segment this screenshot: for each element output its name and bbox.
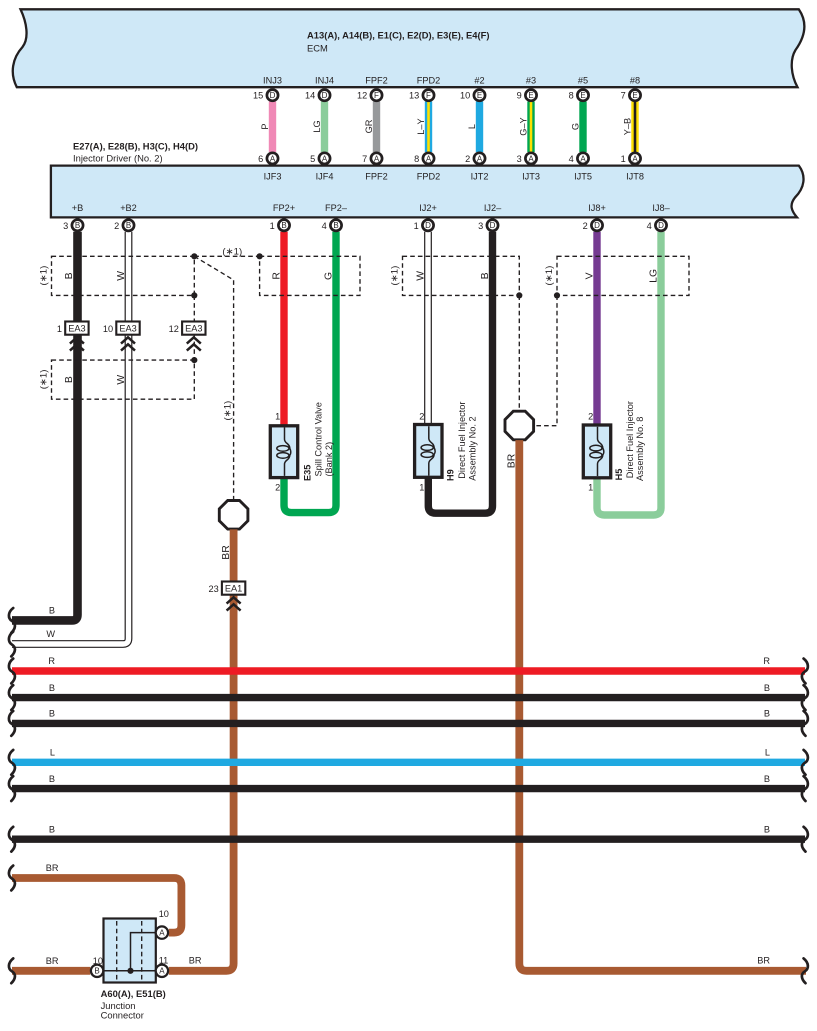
ECM pin 8(E) — [577, 90, 588, 101]
svg-text:FP2–: FP2– — [325, 203, 348, 213]
wire P (pink) — [269, 102, 276, 153]
svg-text:2: 2 — [465, 154, 470, 164]
svg-text:FPF2: FPF2 — [365, 76, 387, 86]
wire G FP2- to E35 pin2 — [284, 232, 336, 513]
svg-text:4: 4 — [647, 221, 652, 231]
svg-text:IJ8+: IJ8+ — [588, 203, 606, 213]
driver pin 4(B) — [330, 220, 341, 231]
svg-text:10: 10 — [460, 91, 470, 101]
shield box 2 around B W (*1) — [52, 360, 195, 399]
break right — [802, 711, 808, 736]
wire BR top-left to junction A10 — [12, 878, 181, 933]
svg-text:23: 23 — [208, 584, 218, 594]
svg-text:BR: BR — [46, 863, 59, 873]
bus B y=723.4 — [12, 720, 805, 727]
svg-text:BR: BR — [757, 955, 770, 965]
svg-text:(∗1): (∗1) — [222, 246, 242, 257]
svg-text:10: 10 — [159, 909, 169, 919]
shield terminal octagon 2 — [505, 411, 534, 440]
svg-text:3: 3 — [63, 221, 68, 231]
svg-text:1: 1 — [621, 154, 626, 164]
svg-text:P: P — [260, 123, 270, 129]
break left W — [9, 632, 15, 657]
driver pin 7(A) — [371, 153, 382, 164]
svg-text:IJT2: IJT2 — [471, 172, 489, 182]
svg-text:1: 1 — [588, 483, 593, 493]
svg-text:E27(A), E28(B), H3(C), H4(D): E27(A), E28(B), H3(C), H4(D) — [73, 140, 198, 151]
svg-text:Injector Driver (No. 2): Injector Driver (No. 2) — [73, 152, 163, 163]
junction dot box3 bottom-right — [516, 292, 522, 298]
bus B y=697.6 — [12, 694, 805, 701]
connector EA3 pin1 — [57, 322, 89, 351]
svg-text:FPD2: FPD2 — [417, 172, 441, 182]
break left BR2 — [9, 958, 15, 983]
svg-text:B: B — [75, 221, 80, 230]
svg-text:BR: BR — [221, 545, 232, 560]
svg-text:ECM: ECM — [307, 43, 328, 54]
svg-text:Y–B: Y–B — [622, 118, 632, 135]
solenoid E35 Spill Control Valve — [270, 426, 297, 478]
svg-text:Connector: Connector — [101, 1010, 144, 1021]
shield box around V LG (*1) — [557, 256, 689, 295]
svg-text:Assembly No. 8: Assembly No. 8 — [635, 417, 645, 481]
wire V IJ8+ to H5 pin2 — [593, 232, 600, 426]
shield box around B W (*1) — [52, 256, 195, 295]
svg-text:L: L — [50, 748, 55, 758]
svg-text:R: R — [763, 656, 770, 666]
junction dot box5 top-right — [191, 357, 197, 363]
junction inner dashed 1 — [116, 921, 118, 980]
svg-text:8: 8 — [569, 91, 574, 101]
break right — [802, 827, 808, 852]
shield box around R G (*1) — [260, 256, 360, 295]
svg-text:F: F — [374, 91, 379, 100]
junction dot box2 top-left — [257, 253, 263, 259]
ECM pin 7(E) — [629, 90, 640, 101]
svg-text:7: 7 — [362, 154, 367, 164]
svg-text:B: B — [764, 683, 770, 693]
svg-text:A: A — [159, 929, 165, 938]
junction dot box4 bottom-left — [554, 292, 560, 298]
svg-text:A60(A), E51(B): A60(A), E51(B) — [101, 988, 166, 999]
wire BR octagon1 to EA1 — [230, 529, 238, 581]
driver pin 4(D) — [655, 220, 666, 231]
svg-text:14: 14 — [305, 91, 315, 101]
svg-text:EA1: EA1 — [225, 584, 242, 594]
svg-text:B: B — [764, 709, 770, 719]
svg-text:IJ2+: IJ2+ — [419, 203, 437, 213]
connector EA3 pin12 — [169, 322, 206, 351]
solenoid H5 Direct Fuel Injector No.8 — [583, 425, 610, 478]
svg-text:L: L — [467, 124, 477, 129]
driver pin 2(A) — [474, 153, 485, 164]
break left B — [9, 608, 15, 633]
driver pin 8(A) — [423, 153, 434, 164]
svg-text:(Bank 2): (Bank 2) — [324, 442, 334, 477]
bus L y=762.3 — [12, 759, 805, 766]
svg-text:B: B — [49, 824, 55, 834]
svg-text:5: 5 — [310, 154, 315, 164]
svg-text:6: 6 — [258, 154, 263, 164]
wire GR — [373, 102, 380, 153]
svg-text:BR: BR — [46, 956, 59, 966]
svg-text:D: D — [322, 91, 328, 100]
wire L — [476, 102, 483, 153]
junction dot box1 bottom-right — [191, 292, 197, 298]
svg-text:A: A — [528, 154, 534, 163]
svg-text:A: A — [374, 154, 380, 163]
shield box around W B (*1) — [403, 256, 520, 295]
svg-text:D: D — [594, 221, 600, 230]
wire BR octagon2 down to right edge — [519, 440, 806, 971]
svg-text:1: 1 — [57, 324, 62, 334]
svg-text:G: G — [570, 123, 580, 130]
break left — [9, 827, 15, 852]
dashed drain box3 to octagon2 — [518, 295, 520, 410]
svg-text:E: E — [477, 91, 482, 100]
svg-text:GR: GR — [364, 119, 374, 133]
svg-text:D: D — [270, 91, 276, 100]
svg-text:Direct Fuel Injector: Direct Fuel Injector — [457, 402, 467, 479]
driver pin 1(B) — [278, 220, 289, 231]
junction internal link — [97, 933, 156, 971]
svg-text:W: W — [116, 271, 127, 281]
break left — [9, 685, 15, 710]
svg-text:W: W — [415, 271, 426, 281]
svg-text:#3: #3 — [526, 76, 536, 86]
svg-text:B: B — [49, 683, 55, 693]
wire R FP2+ to E35 pin1 — [280, 232, 287, 426]
svg-text:A13(A), A14(B), E1(C), E2(D),: A13(A), A14(B), E1(C), E2(D), E3(E), E4(… — [307, 30, 490, 41]
svg-text:L–Y: L–Y — [416, 118, 426, 134]
svg-text:B: B — [94, 967, 99, 976]
svg-text:3: 3 — [517, 154, 522, 164]
svg-text:IJF4: IJF4 — [316, 172, 334, 182]
driver pin 5(A) — [319, 153, 330, 164]
svg-text:W: W — [46, 629, 55, 639]
svg-text:B: B — [480, 272, 491, 279]
svg-text:+B: +B — [72, 203, 84, 213]
driver pin 1(D) — [422, 220, 433, 231]
svg-text:L: L — [765, 748, 770, 758]
svg-text:R: R — [48, 656, 55, 666]
svg-text:A: A — [426, 154, 432, 163]
svg-text:2: 2 — [588, 411, 593, 421]
break left — [9, 711, 15, 736]
break right — [802, 685, 808, 710]
svg-text:2: 2 — [275, 483, 280, 493]
svg-text:13: 13 — [409, 91, 419, 101]
svg-text:B: B — [281, 221, 286, 230]
svg-text:LG: LG — [312, 120, 322, 132]
svg-text:B: B — [126, 221, 131, 230]
ECM pin 12(F) — [371, 90, 382, 101]
svg-text:D: D — [490, 221, 496, 230]
svg-text:#8: #8 — [630, 76, 640, 86]
svg-text:F: F — [426, 91, 431, 100]
svg-text:2: 2 — [114, 221, 119, 231]
driver pin 6(A) — [267, 153, 278, 164]
bus B y=839.2 — [12, 836, 805, 843]
svg-text:B: B — [64, 376, 75, 383]
svg-text:8: 8 — [414, 154, 419, 164]
svg-text:A: A — [270, 154, 276, 163]
svg-text:(∗1): (∗1) — [39, 370, 50, 390]
wire Y-B — [631, 102, 638, 153]
svg-text:Spill Control Valve: Spill Control Valve — [313, 402, 323, 476]
svg-text:EA3: EA3 — [68, 324, 85, 334]
svg-text:4: 4 — [569, 154, 574, 164]
svg-text:BR: BR — [189, 955, 202, 965]
break left — [9, 659, 15, 684]
svg-text:B: B — [49, 709, 55, 719]
svg-text:1: 1 — [275, 411, 280, 421]
svg-text:#2: #2 — [474, 76, 484, 86]
wire LG — [321, 102, 328, 153]
svg-text:B: B — [333, 221, 338, 230]
driver pin 1(A) — [629, 153, 640, 164]
svg-text:E35: E35 — [302, 465, 312, 481]
junction inner dashed 2 — [141, 921, 143, 980]
Injector Driver No.2 block — [51, 166, 804, 218]
shield terminal octagon 1 — [219, 501, 248, 530]
ECM pin 15(D) — [267, 90, 278, 101]
svg-text:FPF2: FPF2 — [365, 172, 387, 182]
svg-text:9: 9 — [517, 91, 522, 101]
wire LG IJ8- to H5 pin1 — [597, 232, 661, 515]
svg-text:H9: H9 — [446, 469, 456, 481]
svg-text:IJF3: IJF3 — [264, 172, 282, 182]
ECM block A13/A14/E1-E4 — [13, 9, 805, 87]
ECM pin 10(E) — [474, 90, 485, 101]
svg-text:D: D — [425, 221, 431, 230]
svg-text:15: 15 — [253, 91, 263, 101]
wire B from +B to left bus — [12, 232, 78, 621]
svg-text:3: 3 — [478, 221, 483, 231]
driver pin 3(B) — [72, 220, 83, 231]
break left — [9, 776, 15, 801]
svg-text:D: D — [658, 221, 664, 230]
break right — [802, 659, 808, 684]
driver pin 2(D) — [591, 220, 602, 231]
break right — [802, 750, 808, 775]
junction pin 11(A) — [156, 965, 168, 977]
svg-text:7: 7 — [621, 91, 626, 101]
junction dot box1 top-right — [191, 253, 197, 259]
wire W IJ2+ to H9 pin2 — [424, 232, 432, 425]
svg-text:A: A — [159, 967, 165, 976]
svg-text:E: E — [580, 91, 585, 100]
svg-text:B: B — [764, 824, 770, 834]
svg-text:IJ2–: IJ2– — [484, 203, 502, 213]
break right — [802, 776, 808, 801]
svg-text:B: B — [764, 774, 770, 784]
driver pin 3(D) — [487, 220, 498, 231]
junction internal dot — [127, 968, 133, 974]
svg-text:B: B — [49, 774, 55, 784]
wire L-Y — [425, 102, 432, 153]
svg-text:IJT3: IJT3 — [522, 172, 540, 182]
break left BR — [9, 866, 15, 891]
svg-text:+B2: +B2 — [120, 203, 137, 213]
svg-text:G: G — [323, 272, 334, 280]
ECM pin 14(D) — [319, 90, 330, 101]
svg-text:10: 10 — [103, 324, 113, 334]
junction pin 10(A) — [156, 926, 168, 938]
svg-text:INJ3: INJ3 — [263, 76, 282, 86]
junction connector A60/E51 — [104, 919, 156, 983]
svg-text:BR: BR — [507, 453, 518, 468]
bus R y=671.0 — [12, 667, 805, 674]
wire BR EA1 down to junction connector A11 — [169, 595, 234, 971]
dashed link box1-box5 — [193, 295, 195, 360]
svg-text:LG: LG — [648, 269, 659, 283]
svg-text:FP2+: FP2+ — [273, 203, 295, 213]
svg-text:1: 1 — [414, 221, 419, 231]
svg-text:4: 4 — [322, 221, 327, 231]
svg-text:1: 1 — [270, 221, 275, 231]
svg-text:A: A — [580, 154, 586, 163]
wire W from +B2 to left bus — [12, 232, 129, 644]
svg-text:IJT5: IJT5 — [574, 172, 592, 182]
connector EA3 pin10 — [103, 322, 140, 351]
svg-text:E: E — [632, 91, 637, 100]
svg-text:1: 1 — [419, 483, 424, 493]
solenoid H9 Direct Fuel Injector No.2 — [415, 425, 442, 478]
svg-text:E: E — [528, 91, 533, 100]
svg-text:(∗1): (∗1) — [222, 401, 233, 421]
wire G — [579, 102, 586, 153]
svg-text:Direct Fuel Injector: Direct Fuel Injector — [625, 401, 635, 478]
wire G-Y — [527, 102, 534, 153]
ECM pin 13(F) — [423, 90, 434, 101]
svg-text:B: B — [49, 606, 55, 616]
svg-text:2: 2 — [419, 411, 424, 421]
svg-text:IJ8–: IJ8– — [652, 203, 670, 213]
ECM pin 9(E) — [525, 90, 536, 101]
break left — [9, 750, 15, 775]
svg-text:FPD2: FPD2 — [417, 76, 441, 86]
svg-text:G–Y: G–Y — [518, 117, 528, 135]
driver pin 2(B) — [123, 220, 134, 231]
svg-text:A: A — [477, 154, 483, 163]
wire BR bottom-left to junction B10 — [12, 967, 90, 975]
dashed link box1-box2 — [194, 255, 259, 257]
svg-text:V: V — [584, 272, 595, 279]
svg-text:INJ4: INJ4 — [315, 76, 334, 86]
svg-text:H5: H5 — [614, 469, 624, 481]
connector EA1 pin23 — [208, 582, 245, 611]
bus B y=788.6 — [12, 785, 805, 792]
svg-text:(∗1): (∗1) — [39, 266, 50, 286]
svg-text:EA3: EA3 — [185, 324, 202, 334]
svg-text:B: B — [64, 272, 75, 279]
svg-text:2: 2 — [583, 221, 588, 231]
driver pin 3(A) — [525, 153, 536, 164]
dashed drain box4 to octagon2 — [534, 295, 557, 425]
svg-text:EA3: EA3 — [119, 324, 136, 334]
svg-text:R: R — [271, 272, 282, 280]
junction pin 10(B) — [91, 965, 103, 977]
svg-text:IJT8: IJT8 — [626, 172, 644, 182]
svg-text:(∗1): (∗1) — [390, 266, 401, 286]
svg-text:Assembly No. 2: Assembly No. 2 — [468, 416, 478, 480]
dashed drain to octagon1 — [194, 256, 233, 500]
svg-text:A: A — [632, 154, 638, 163]
svg-text:#5: #5 — [578, 76, 588, 86]
driver pin 4(A) — [577, 153, 588, 164]
svg-text:12: 12 — [357, 91, 367, 101]
svg-text:(∗1): (∗1) — [544, 266, 555, 286]
wire B IJ2- to H9 pin1 — [428, 232, 492, 514]
svg-text:12: 12 — [169, 324, 179, 334]
break right BR — [802, 958, 808, 983]
svg-text:W: W — [116, 375, 127, 385]
svg-text:A: A — [322, 154, 328, 163]
